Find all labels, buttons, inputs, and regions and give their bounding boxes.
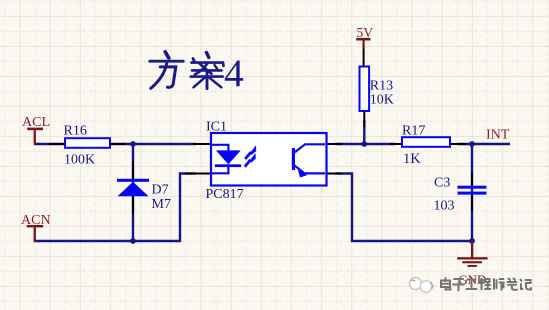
IC1 LED cathode bar	[215, 164, 241, 167]
svg-text:103: 103	[434, 199, 455, 214]
wire C3 branch	[471, 144, 473, 241]
watermark logo	[410, 278, 434, 293]
svg-text:ACN: ACN	[21, 213, 51, 228]
wire ACL to R16 to IC1 pin1	[34, 143, 196, 145]
IC1 LED triangle	[216, 150, 241, 164]
junction dot at R17/C3/INT node	[469, 141, 475, 147]
IC1 LED cathode lead	[211, 167, 228, 173]
resistor R17 pins	[390, 143, 466, 145]
wire IC1 pin4 to R17	[335, 143, 395, 145]
IC1 phototransistor emitter	[295, 166, 326, 174]
IC1 light arrow 1	[245, 145, 256, 159]
svg-text:PC817: PC817	[206, 187, 244, 202]
junction dot at C3/GND node	[469, 238, 475, 244]
wire junction A down to D7 and ACN rail	[132, 144, 134, 241]
power port 5V symbol	[356, 38, 370, 49]
svg-text:R16: R16	[64, 123, 87, 138]
wire IC1 pin3 to GND rail	[335, 174, 472, 242]
resistor R16 pins	[49, 143, 126, 145]
svg-text:D7: D7	[152, 183, 169, 198]
wire R13 bottom to junction	[363, 120, 365, 144]
diode D7 pins	[132, 161, 134, 214]
junction dot at R13/R17 node	[361, 141, 367, 147]
resistor R13 pins	[363, 49, 366, 128]
svg-text:INT: INT	[486, 128, 510, 143]
title 方案4	[150, 52, 224, 89]
optocoupler IC1 pins	[185, 144, 342, 174]
svg-text:R13: R13	[370, 78, 393, 93]
IC1 phototransistor base bar	[292, 148, 295, 170]
svg-text:IC1: IC1	[206, 119, 227, 134]
svg-text:1K: 1K	[403, 151, 421, 167]
resistor R17 body	[402, 137, 450, 147]
svg-text:R17: R17	[402, 124, 425, 139]
watermark text 电子工程师笔记	[441, 273, 531, 291]
svg-text:M7: M7	[152, 197, 171, 212]
svg-text:10K: 10K	[370, 92, 394, 107]
resistor R13 body	[360, 67, 370, 112]
wire ACN rail	[34, 174, 196, 242]
optocoupler IC1 body	[211, 133, 327, 186]
junction dot at R16/D7 node	[130, 141, 136, 147]
svg-text:100K: 100K	[64, 153, 95, 168]
diode D7 symbol	[117, 179, 149, 196]
port ACL symbol	[27, 128, 43, 145]
capacitor C3 pins	[471, 173, 473, 211]
IC1 light arrow 2	[245, 153, 256, 167]
IC1 LED anode lead	[211, 145, 228, 151]
svg-text:ACL: ACL	[22, 115, 50, 130]
port ACN symbol	[27, 225, 43, 242]
IC1 emitter arrowhead	[298, 168, 308, 178]
svg-text:4: 4	[224, 51, 244, 95]
resistor R16 body	[65, 138, 110, 148]
ground GND symbol	[457, 241, 487, 267]
wire R17 to INT	[458, 143, 510, 145]
capacitor C3 plates	[458, 186, 487, 195]
svg-text:5V: 5V	[357, 25, 374, 40]
junction dot at D7/ACN node	[130, 238, 136, 244]
IC1 phototransistor collector	[295, 144, 326, 152]
svg-text:C3: C3	[434, 176, 450, 191]
